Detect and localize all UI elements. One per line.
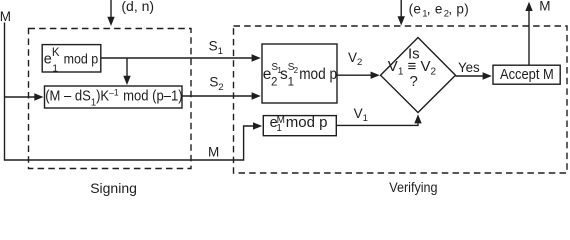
- text B3 e1^M mod p: [270, 114, 328, 134]
- arrowhead S1 into B4: [252, 54, 261, 61]
- svg-text:2: 2: [294, 66, 299, 75]
- svg-text:Signing: Signing: [90, 180, 137, 196]
- svg-text:M: M: [277, 115, 285, 126]
- wire M output arrow: [528, 11, 530, 66]
- svg-text:M: M: [0, 9, 11, 24]
- svg-text:1: 1: [52, 62, 58, 74]
- arrowhead V1 into diamond bottom: [414, 114, 421, 123]
- box Accept M: [493, 65, 560, 84]
- svg-text:2: 2: [271, 77, 277, 89]
- svg-text:Verifying: Verifying: [389, 180, 437, 196]
- verifying dashed box: [234, 26, 568, 173]
- arrowhead (d,n) down: [107, 17, 114, 26]
- svg-text:mod p: mod p: [299, 66, 337, 83]
- svg-text:Accept M: Accept M: [500, 67, 554, 83]
- svg-text:e: e: [44, 51, 52, 67]
- wire M into B2: [5, 96, 36, 98]
- arrowhead M output up: [525, 2, 532, 11]
- arrowhead Yes into Accept box: [483, 72, 492, 79]
- svg-text:mod p: mod p: [64, 51, 99, 67]
- arrowhead (e1,e2,p) down: [398, 16, 405, 25]
- wire S2: [182, 95, 252, 97]
- svg-text:M: M: [539, 0, 550, 14]
- decision diamond Is V1=V2: [381, 38, 456, 113]
- arrowhead V2 into diamond: [371, 72, 380, 79]
- text diamond Is V1=V2 ?: [388, 45, 437, 90]
- wire (d,n) input arrow: [110, 0, 112, 18]
- svg-text:(d, n): (d, n): [121, 0, 154, 14]
- box B4 e2^S1 s1^S2 mod p: [262, 44, 337, 103]
- wire V2: [337, 74, 371, 76]
- arrowhead into B2 left: [34, 93, 43, 100]
- box B3 e1^M mod p: [263, 116, 336, 136]
- wire branch drop into B2: [126, 58, 128, 77]
- wire (e1,e2,p) input arrow: [400, 0, 402, 17]
- svg-text:mod p: mod p: [286, 114, 328, 131]
- svg-text:Yes: Yes: [458, 60, 480, 75]
- svg-text:K: K: [52, 47, 60, 59]
- text B1 e1^K mod p: [44, 47, 99, 74]
- text B4 e2^S1 s1^S2 mod p: [263, 62, 337, 89]
- svg-text:1: 1: [288, 76, 294, 88]
- svg-text:?: ?: [410, 73, 418, 90]
- wire V1: [336, 124, 418, 126]
- svg-text:M: M: [208, 145, 219, 160]
- arrowhead S2 into B4: [252, 92, 261, 99]
- wire S1: [101, 57, 252, 59]
- arrowhead branch into B2 top: [123, 76, 130, 85]
- signing dashed box: [29, 29, 192, 169]
- arrowhead into B3: [253, 122, 262, 129]
- box B1 e1^K mod p: [42, 45, 101, 72]
- wire M feed left and bottom: [5, 23, 254, 161]
- wire Yes: [456, 75, 484, 77]
- box B2 (M-dS1)K^-1 mod (p-1): [45, 86, 183, 108]
